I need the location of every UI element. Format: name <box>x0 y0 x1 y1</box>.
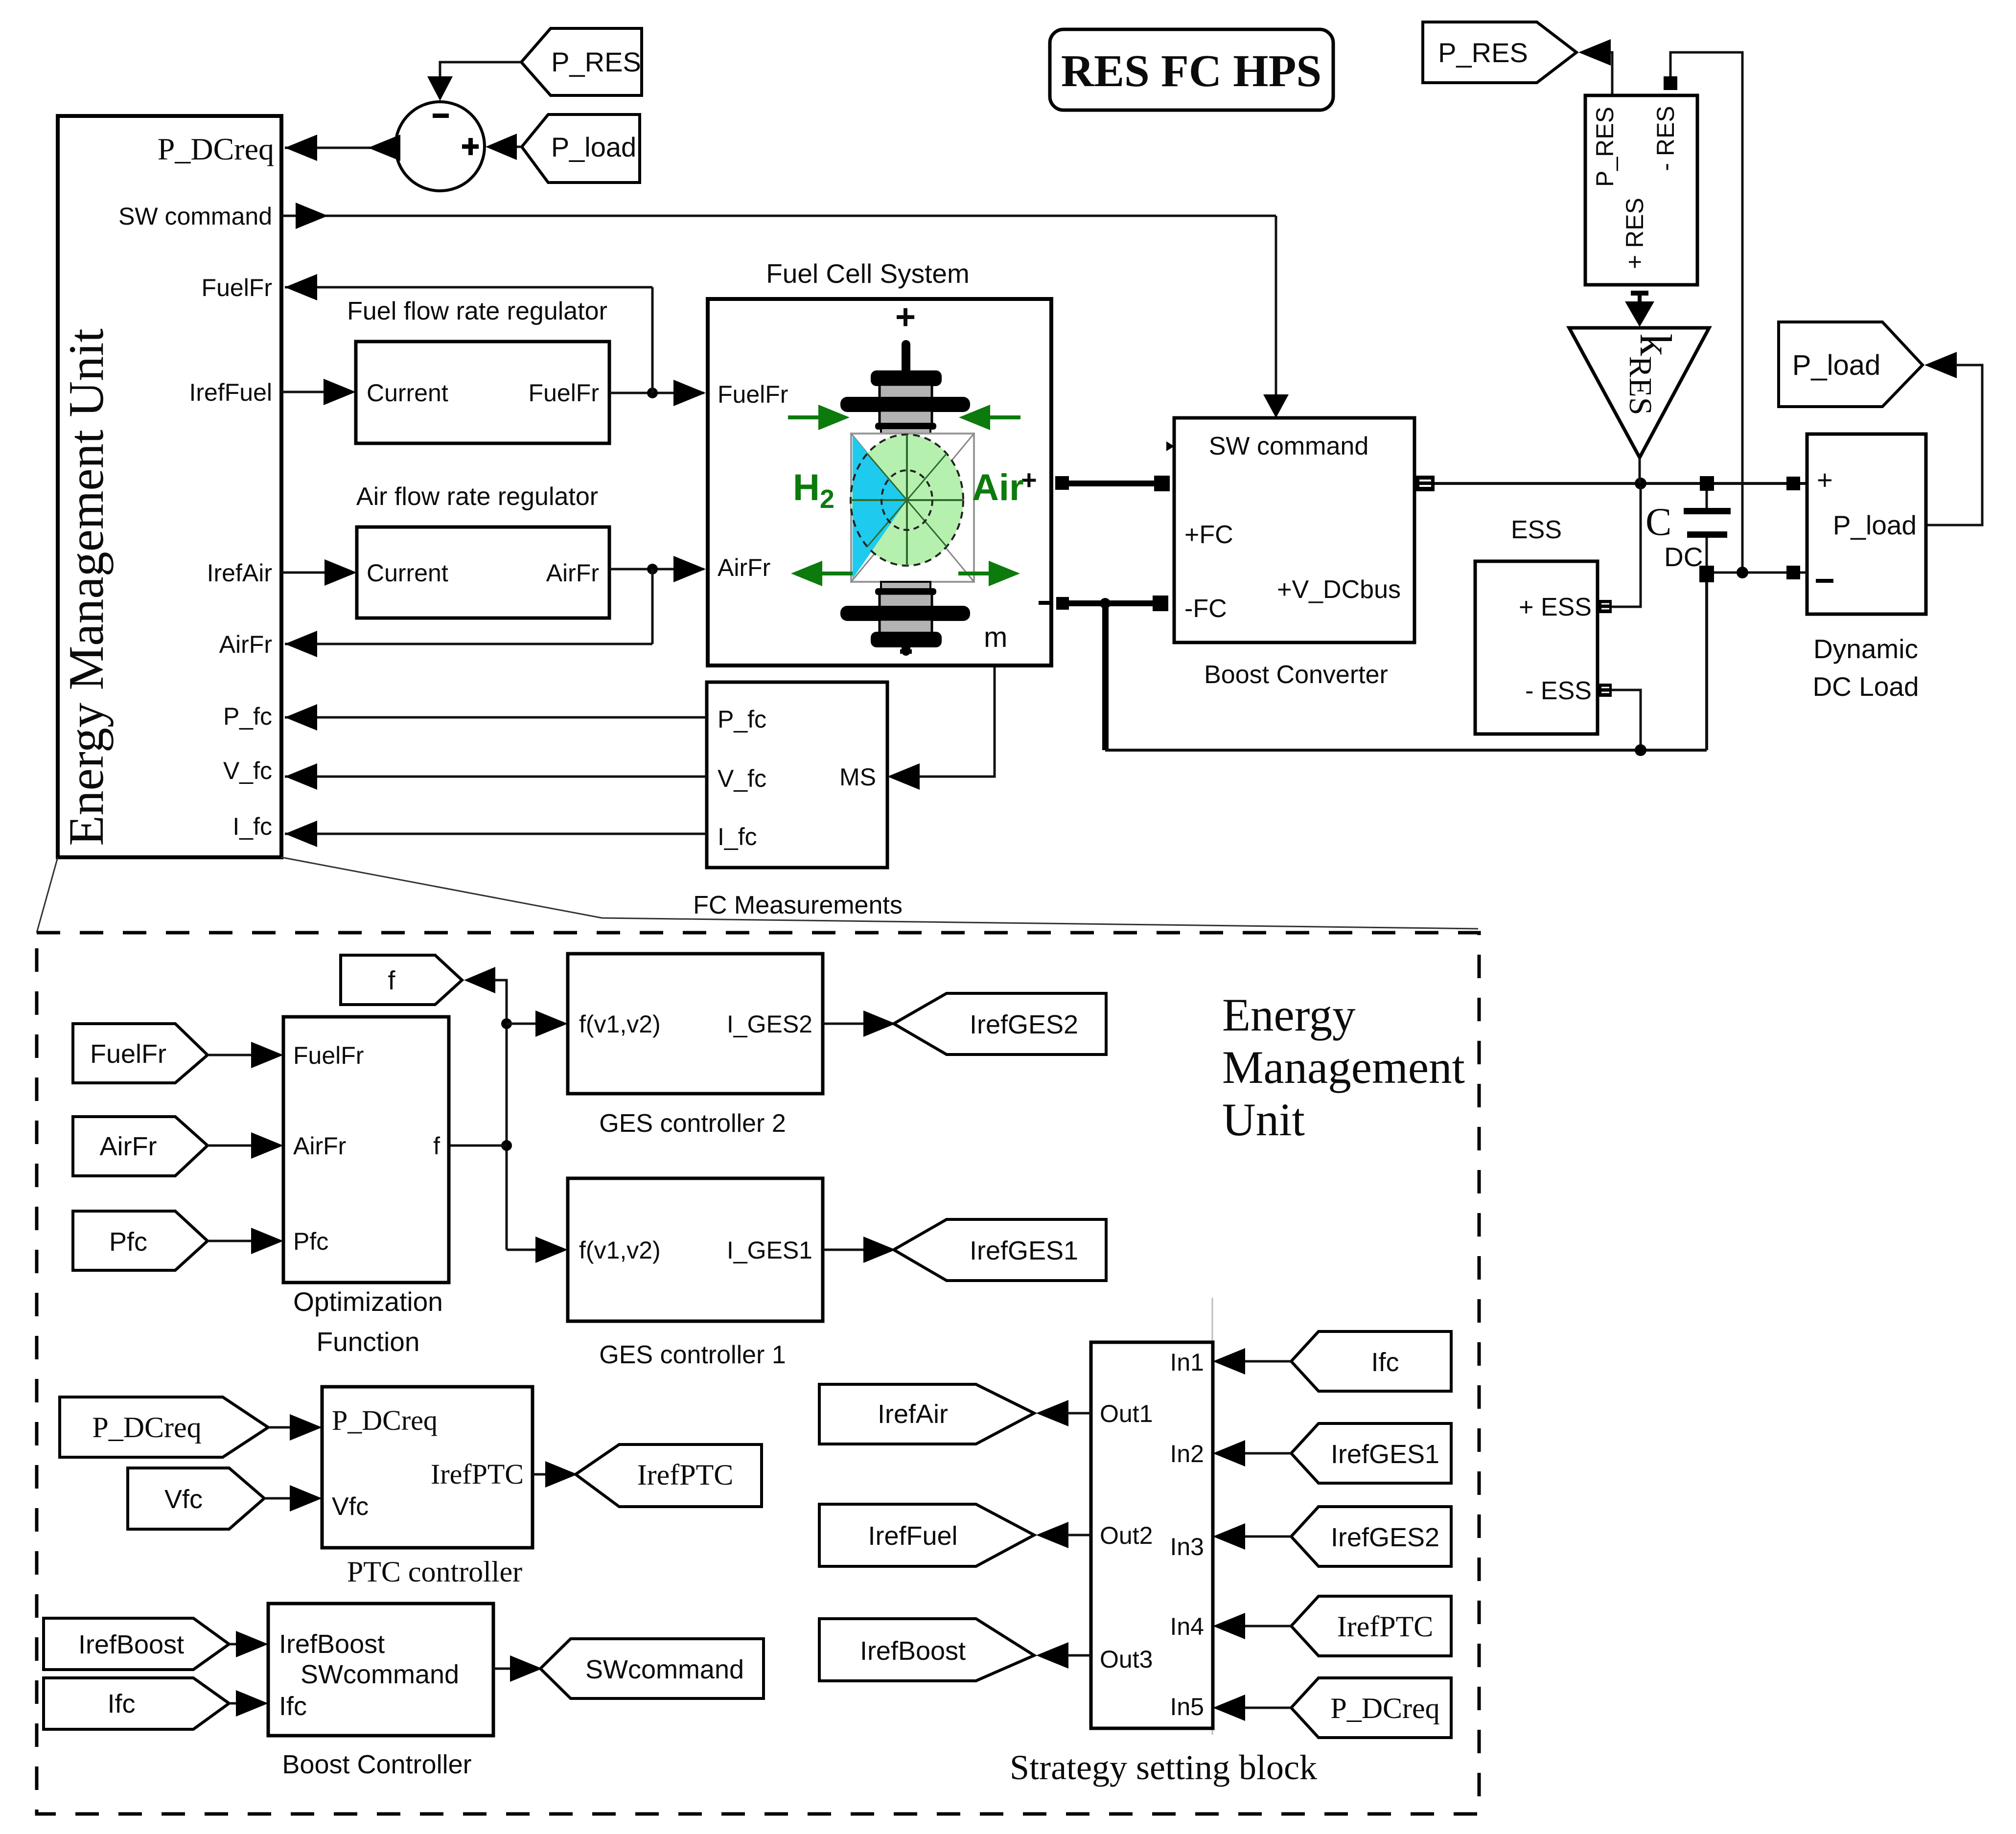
wire FC Measurements V_fc to EMU <box>285 763 707 790</box>
wire kRES apex to DC bus <box>1639 458 1641 483</box>
svg-text:P_load: P_load <box>1833 510 1917 540</box>
input-tag IrefPTC (strategy) <box>1291 1596 1451 1656</box>
wire bottom bus (-FC to DC link minus) <box>1105 749 1707 752</box>
svg-text:FuelFr: FuelFr <box>529 379 599 407</box>
svg-text:FuelFr: FuelFr <box>202 274 272 301</box>
wire sum junction to EMU P_DCreq <box>285 135 400 161</box>
svg-text:In1: In1 <box>1170 1349 1204 1376</box>
wire EMU IrefAir to air regulator <box>281 559 357 586</box>
wire Out2 to IrefFuel tag <box>1036 1522 1091 1548</box>
block PTC controller <box>322 1387 533 1588</box>
svg-text:P_DCreq: P_DCreq <box>158 132 274 166</box>
svg-text:GES controller 2: GES controller 2 <box>599 1109 786 1138</box>
goto-tag f <box>341 955 462 1005</box>
junction -FC drop <box>1100 598 1111 609</box>
block GES controller 1 <box>568 1178 823 1369</box>
svg-text:Vfc: Vfc <box>332 1492 369 1521</box>
svg-text:IrefAir: IrefAir <box>878 1399 948 1429</box>
junction f to GES2 <box>501 1018 512 1029</box>
thick wire FCS+ to Boost +FC <box>1069 481 1155 486</box>
svg-text:Dynamic: Dynamic <box>1813 634 1918 664</box>
svg-text:IrefAir: IrefAir <box>207 559 272 587</box>
svg-text:V_fc: V_fc <box>718 765 766 792</box>
junction DC bus / kRES / ESS+ <box>1635 478 1646 489</box>
RES block -RES port pad <box>1664 76 1677 90</box>
wire capacitor minus to load minus <box>1714 572 1786 574</box>
input-tag Vfc <box>128 1468 264 1529</box>
input-tag Ifc (strategy) <box>1291 1331 1451 1391</box>
svg-text:PTC controller: PTC controller <box>347 1556 522 1588</box>
input-tag AirFr <box>73 1117 208 1176</box>
svg-text:+FC: +FC <box>1184 521 1233 549</box>
wire load output feedback to P_load tag <box>1924 352 1982 525</box>
svg-text:SW command: SW command <box>1209 432 1369 460</box>
svg-text:SWcommand: SWcommand <box>585 1655 744 1684</box>
svg-text:f: f <box>433 1132 440 1160</box>
svg-text:Pfc: Pfc <box>109 1227 147 1257</box>
svg-text:IrefGES1: IrefGES1 <box>1331 1440 1439 1469</box>
block Boost Converter <box>1166 418 1414 689</box>
Boost -FC port pad <box>1153 596 1168 611</box>
wire PTC output to IrefPTC tag <box>533 1461 578 1488</box>
input-tag IrefGES1 (strategy) <box>1291 1423 1451 1483</box>
wire Ifc tag to In1 <box>1213 1348 1291 1375</box>
svg-text:Management: Management <box>1222 1041 1465 1093</box>
svg-text:- RES: - RES <box>1652 106 1679 171</box>
block FC Measurements <box>693 682 903 919</box>
sum junction (P_load + , P_RES -) <box>395 102 485 191</box>
ESS - port <box>1599 684 1612 697</box>
svg-text:Ifc: Ifc <box>1371 1348 1399 1377</box>
svg-text:P_load: P_load <box>551 132 636 162</box>
wire P_DCreq tag to In5 <box>1213 1695 1291 1721</box>
svg-text:IrefPTC: IrefPTC <box>637 1459 734 1491</box>
input-tag FuelFr <box>73 1024 208 1083</box>
input-tag P_DCreq (strategy) <box>1291 1678 1451 1738</box>
wire GES2 output to IrefGES2 tag <box>823 1010 896 1037</box>
wire IrefGES2 tag to In3 <box>1213 1523 1291 1550</box>
svg-text:I_fc: I_fc <box>232 813 272 840</box>
svg-text:IrefPTC: IrefPTC <box>431 1458 524 1490</box>
input-tag IrefBoost <box>44 1618 229 1670</box>
svg-text:Ifc: Ifc <box>279 1692 307 1721</box>
block Energy Management Unit (EMU) <box>58 116 281 857</box>
svg-text:+ RES: + RES <box>1621 198 1648 269</box>
green arrow bottom-left (out) <box>791 561 853 586</box>
block Strategy setting (In/Out) <box>1010 1342 1317 1787</box>
wire optimization f output <box>449 1145 507 1147</box>
svg-text:P_fc: P_fc <box>223 703 272 730</box>
svg-text:Out2: Out2 <box>1100 1522 1153 1549</box>
wire FC Measurements I_fc to EMU <box>285 821 707 847</box>
svg-text:IrefFuel: IrefFuel <box>868 1521 957 1551</box>
wire P_RES tag to sum junction <box>427 62 521 101</box>
wire Boost Controller output to SWcommand tag <box>493 1655 542 1682</box>
block fuel current regulator (Current -> FuelFr) <box>356 342 609 443</box>
wire ESS- to bottom bus <box>1612 690 1641 747</box>
wire Out3 to IrefBoost tag <box>1036 1642 1091 1669</box>
wire FC Measurements P_fc to EMU <box>285 704 707 731</box>
svg-text:Strategy setting block: Strategy setting block <box>1010 1748 1317 1787</box>
svg-text:FuelFr: FuelFr <box>718 381 788 408</box>
svg-text:Out1: Out1 <box>1100 1400 1153 1427</box>
block RES (P_RES / +RES / -RES) <box>1585 95 1697 285</box>
svg-text:+ ESS: + ESS <box>1519 593 1592 621</box>
svg-text:IrefBoost: IrefBoost <box>279 1629 385 1659</box>
svg-text:RES FC HPS: RES FC HPS <box>1061 46 1321 96</box>
wire Vfc tag to PTC <box>264 1485 322 1512</box>
wire AirFr tag to optimization <box>208 1132 283 1159</box>
svg-text:DC Load: DC Load <box>1812 671 1919 702</box>
svg-text:IrefBoost: IrefBoost <box>78 1630 184 1659</box>
dashed box EMU detail <box>37 933 1479 1814</box>
wire FuelFr tag to optimization <box>208 1042 283 1068</box>
svg-text:FuelFr: FuelFr <box>293 1042 364 1069</box>
svg-text:Unit: Unit <box>1222 1094 1305 1146</box>
wire Out1 to IrefAir tag <box>1036 1400 1091 1426</box>
input-tag Pfc <box>73 1211 208 1270</box>
block Boost Controller <box>268 1604 493 1779</box>
wire bottom bus up to capacitor minus pad <box>1705 581 1708 750</box>
svg-text:AirFr: AirFr <box>718 554 770 581</box>
svg-text:IrefGES2: IrefGES2 <box>970 1010 1078 1039</box>
fuel cell icon: top electrode stack <box>840 340 970 436</box>
wire P_load tag to sum junction <box>486 134 522 160</box>
svg-text:V_fc: V_fc <box>223 757 272 784</box>
svg-text:FuelFr: FuelFr <box>90 1039 166 1069</box>
input-tag Ifc (boost) <box>44 1678 229 1729</box>
wire IrefPTC tag to In4 <box>1213 1613 1291 1639</box>
green arrow bottom-right (out) <box>958 561 1020 586</box>
svg-text:Air: Air <box>972 467 1024 508</box>
svg-text:Boost Controller: Boost Controller <box>282 1750 471 1779</box>
svg-text:Current: Current <box>367 379 448 407</box>
wire FCS m port to FC Measurements MS <box>887 665 995 790</box>
svg-text:f: f <box>388 966 395 995</box>
svg-text:P_RES: P_RES <box>1438 37 1528 68</box>
FCS + output port <box>1055 476 1069 490</box>
thick wire FCS- to Boost -FC <box>1069 600 1154 606</box>
block Fuel Cell System <box>708 258 1051 665</box>
wire P_DCreq tag to PTC <box>268 1414 322 1441</box>
svg-text:IrefGES2: IrefGES2 <box>1331 1523 1439 1552</box>
faint column line (strategy block) <box>1212 1298 1213 1735</box>
RES block +RES output stub and arrow into kRES gain <box>1625 293 1654 327</box>
svg-text:- ESS: - ESS <box>1525 677 1592 705</box>
svg-text:+: + <box>1817 464 1833 495</box>
title RES FC HPS <box>1050 29 1333 110</box>
green arrow top-left (in) <box>788 405 850 430</box>
svg-text:P_load: P_load <box>1792 349 1881 381</box>
output-tag IrefBoost (strategy) <box>819 1619 1034 1681</box>
block ESS <box>1475 516 1598 734</box>
wire IrefBoost tag to Boost Controller <box>229 1631 268 1657</box>
svg-text:f(v1,v2): f(v1,v2) <box>579 1237 661 1264</box>
svg-text:P_DCreq: P_DCreq <box>92 1411 201 1444</box>
svg-text:Out3: Out3 <box>1100 1646 1153 1673</box>
svg-text:I_GES2: I_GES2 <box>727 1010 812 1038</box>
wire GES1 output to IrefGES1 tag <box>823 1237 896 1263</box>
label Energy Management Unit (detail) <box>1222 989 1465 1146</box>
block air current regulator (Current -> AirFr) <box>357 527 609 618</box>
block Optimization Function <box>283 1017 449 1357</box>
Boost +V_DCbus output port <box>1416 476 1435 491</box>
svg-text:Optimization: Optimization <box>293 1286 443 1317</box>
fuel cell icon: bottom electrode stack <box>840 582 970 656</box>
wire EMU IrefFuel to fuel regulator <box>281 379 356 405</box>
svg-text:Fuel flow rate regulator: Fuel flow rate regulator <box>347 297 607 325</box>
svg-text:IrefFuel: IrefFuel <box>189 379 272 406</box>
svg-text:Fuel Cell System: Fuel Cell System <box>766 258 970 289</box>
output-tag IrefFuel <box>819 1504 1034 1566</box>
svg-text:IrefPTC: IrefPTC <box>1337 1610 1434 1643</box>
svg-text:P_RES: P_RES <box>551 46 641 77</box>
svg-text:P_fc: P_fc <box>718 706 766 733</box>
svg-text:P_DCreq: P_DCreq <box>1330 1692 1439 1724</box>
wire P_RES tag to RES block input <box>1578 39 1612 95</box>
block Dynamic DC Load <box>1807 434 1926 702</box>
wire EMU SW command to Boost Converter <box>281 203 1289 418</box>
load - port pad <box>1786 566 1800 579</box>
svg-text:AirFr: AirFr <box>293 1132 346 1160</box>
svg-text:m: m <box>984 621 1007 653</box>
junction bottom bus / ESS- <box>1635 744 1646 756</box>
wire f distribution vertical <box>506 1024 508 1250</box>
input-tag IrefGES2 (strategy) <box>1291 1507 1451 1566</box>
load + port pad <box>1786 477 1800 490</box>
svg-text:FC Measurements: FC Measurements <box>693 891 903 919</box>
expansion line left (EMU to dashed EMU detail) <box>37 857 58 933</box>
svg-text:IrefBoost: IrefBoost <box>860 1636 966 1666</box>
svg-text:ESS: ESS <box>1511 516 1562 544</box>
Boost +FC port pad <box>1154 476 1170 491</box>
wire f to GES controller 2 input <box>507 1010 568 1037</box>
svg-text:AirFr: AirFr <box>100 1132 157 1161</box>
svg-text:-FC: -FC <box>1184 595 1227 623</box>
output-tag SWcommand <box>540 1639 764 1698</box>
capacitor C on DC link <box>1645 476 1731 582</box>
svg-text:In4: In4 <box>1170 1613 1204 1640</box>
svg-text:+V_DCbus: +V_DCbus <box>1277 575 1401 604</box>
svg-text:GES controller 1: GES controller 1 <box>599 1341 786 1369</box>
goto-tag P_RES (top right) <box>1423 22 1576 83</box>
svg-text:Pfc: Pfc <box>293 1228 328 1255</box>
svg-text:AirFr: AirFr <box>219 631 272 658</box>
svg-text:P_RES: P_RES <box>1591 107 1619 187</box>
wire air regulator AirFr out to FCS and back to EMU <box>285 556 706 657</box>
svg-text:f(v1,v2): f(v1,v2) <box>579 1010 661 1038</box>
svg-text:MS: MS <box>839 763 876 791</box>
output-tag IrefAir <box>819 1384 1034 1444</box>
wire IrefGES1 tag to In2 <box>1213 1440 1291 1467</box>
svg-text:Function: Function <box>317 1327 420 1357</box>
svg-text:I_GES1: I_GES1 <box>727 1237 812 1264</box>
wire f to GES controller 1 input <box>507 1237 568 1263</box>
fuel cell icon: membrane square with H2/Air sectors <box>851 434 974 582</box>
svg-text:C: C <box>1645 501 1671 544</box>
wire fuel regulator FuelFr out to FCS and back to EMU <box>285 274 706 406</box>
wire Pfc tag to optimization <box>208 1228 283 1254</box>
svg-text:Boost Converter: Boost Converter <box>1204 661 1388 689</box>
svg-text:Energy Management Unit: Energy Management Unit <box>59 328 114 846</box>
junction -RES vertical meets load minus wire <box>1737 567 1748 578</box>
svg-text:Current: Current <box>367 559 448 587</box>
svg-text:DC: DC <box>1664 542 1703 572</box>
wire ESS+ to DC bus <box>1612 486 1641 607</box>
svg-text:IrefGES1: IrefGES1 <box>970 1236 1078 1265</box>
junction f output <box>501 1140 512 1151</box>
svg-text:SW command: SW command <box>118 203 272 230</box>
svg-text:+: + <box>895 298 916 337</box>
svg-text:I_fc: I_fc <box>718 823 757 850</box>
svg-text:P_DCreq: P_DCreq <box>332 1404 438 1436</box>
green arrow top-right (in) <box>959 405 1020 430</box>
gain kRES (triangle) <box>1569 328 1709 458</box>
FCS - output port <box>1056 597 1069 610</box>
output-tag IrefGES2 <box>894 993 1106 1055</box>
svg-text:In3: In3 <box>1170 1533 1204 1560</box>
svg-text:In2: In2 <box>1170 1440 1204 1467</box>
ESS + port <box>1599 600 1612 613</box>
wire DC bus (Boost out to load +) <box>1435 482 1807 485</box>
expansion line right (EMU to dashed EMU detail) <box>281 857 1478 929</box>
svg-text:Energy: Energy <box>1222 989 1356 1041</box>
input-tag P_DCreq (PTC) <box>60 1397 268 1457</box>
svg-text:AirFr: AirFr <box>546 559 599 587</box>
wire f tag from optimization output <box>464 967 507 1024</box>
svg-text:Ifc: Ifc <box>107 1689 135 1719</box>
thick wire -FC drop to bottom bus <box>1102 603 1109 750</box>
output-tag IrefPTC <box>576 1444 762 1507</box>
output-tag IrefGES1 <box>894 1219 1106 1281</box>
from-tag P_RES (top) <box>521 28 642 95</box>
from-tag P_load (left) <box>522 115 640 183</box>
svg-text:In5: In5 <box>1170 1693 1204 1720</box>
goto-tag P_load (right) <box>1779 322 1923 407</box>
svg-text:Vfc: Vfc <box>164 1485 203 1514</box>
wire load - pad into block <box>1800 572 1807 574</box>
wire Ifc tag to Boost Controller <box>229 1690 268 1717</box>
block GES controller 2 <box>568 954 823 1138</box>
svg-text:SWcommand: SWcommand <box>301 1660 459 1689</box>
svg-text:Air flow rate regulator: Air flow rate regulator <box>356 482 598 511</box>
wire RES -RES to load minus (right vertical) <box>1670 52 1742 573</box>
